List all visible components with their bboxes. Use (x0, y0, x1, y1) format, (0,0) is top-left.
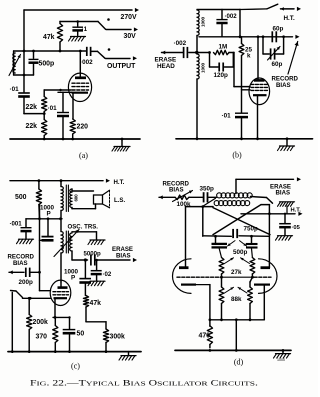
wire grid rail (a) (23, 51, 25, 92)
resistor 1M (b) (196, 50, 234, 54)
capacitor .01 (b) (235, 113, 248, 139)
svg-text:50: 50 (77, 331, 85, 338)
switch S1a HT selector (98, 18, 110, 29)
arrow onto right 500p (240, 241, 247, 246)
svg-text:470: 470 (199, 332, 211, 339)
terminal record bias (d) (159, 195, 175, 199)
label 300k (110, 334, 125, 341)
resistor 22k upper (a) (42, 90, 47, 115)
label 270V (121, 14, 137, 21)
svg-text:30V: 30V (124, 33, 137, 40)
svg-text:BIAS: BIAS (276, 82, 291, 89)
wire earth rail (b) (176, 137, 313, 140)
svg-text:1000: 1000 (201, 63, 207, 73)
wire grid2 lead (b) (242, 89, 251, 91)
arrow 88k right (238, 287, 247, 293)
label 47k (43, 34, 55, 41)
valve V1 (a) (68, 51, 91, 119)
caption Fig 22 (30, 379, 258, 388)
resistor 25k (b) (239, 37, 244, 113)
transformer primary (c) (61, 181, 63, 232)
label (a) (79, 151, 88, 160)
svg-text:·02: ·02 (103, 271, 112, 278)
label 47k (c) (90, 300, 102, 307)
valve V2 (b) (249, 37, 270, 139)
resistor 22k lower (a) (42, 114, 47, 139)
svg-text:500p: 500p (233, 249, 248, 256)
svg-text:220: 220 (77, 124, 89, 131)
svg-text:60p: 60p (272, 61, 283, 68)
svg-text:200k: 200k (33, 319, 48, 326)
wire left HT rail (a) (23, 10, 25, 51)
label OSC. TRS. (68, 224, 99, 231)
resistor 500 (c) (36, 181, 41, 219)
valve V5 right (d) (254, 259, 277, 294)
capacitor .002 erase (b) (184, 47, 196, 58)
arrow 27k right (241, 258, 250, 264)
label ERASE HEAD (155, 57, 177, 71)
svg-text:47k: 47k (90, 300, 102, 307)
svg-text:200p: 200p (19, 279, 34, 286)
svg-text:FIG. 22.—TYPICAL BIAS OSCILLAT: FIG. 22.—TYPICAL BIAS OSCILLATOR CIRCUIT… (30, 379, 258, 388)
svg-text:P: P (71, 275, 75, 282)
label H.T. (c) (114, 179, 125, 186)
label 500 (15, 194, 27, 201)
ground below .1 cap (69, 37, 86, 42)
label L.S. (114, 197, 125, 204)
label H.T. (d) (291, 208, 302, 214)
wire left anode junction to coil (d) (203, 198, 216, 206)
ground below .001 (17, 239, 34, 244)
label .002 output (80, 59, 93, 66)
resistor 100k variable (d) (173, 191, 193, 202)
svg-text:22k: 22k (26, 123, 38, 130)
svg-text:BIAS: BIAS (116, 253, 131, 260)
wire cathode bus (d) (209, 318, 265, 321)
wire grid line right (d) (254, 276, 271, 278)
label 25k (245, 47, 253, 60)
label 88k (231, 296, 242, 303)
wire left cathode lead (d) (209, 285, 211, 320)
label 22k lower (26, 123, 38, 130)
svg-text:47k: 47k (43, 34, 55, 41)
svg-text:500: 500 (15, 194, 27, 201)
svg-text:·05: ·05 (292, 225, 301, 231)
wire erase bias tap (d) (236, 177, 301, 193)
label 100k (177, 201, 192, 208)
wire grid lead (c) (40, 272, 51, 290)
label OUTPUT (107, 63, 136, 70)
label 5000p (84, 251, 102, 258)
label 200p (19, 279, 34, 286)
wire left anode lead (d) (185, 207, 187, 268)
svg-text:350p: 350p (200, 186, 215, 193)
transformer secondary (c) (70, 189, 72, 209)
label 1000p (40, 205, 55, 218)
ground (a) (112, 139, 130, 151)
label H.T. (b) (284, 15, 295, 22)
wire tank top / output bus (a) (14, 50, 87, 53)
inductor L3 top row (d) (217, 193, 253, 198)
valve V4 left (d) (172, 259, 209, 294)
switch record/play (c) (11, 291, 51, 300)
resistor 200k (c) (27, 297, 32, 352)
wire HT top rail (a) (24, 8, 139, 12)
svg-text:HEAD: HEAD (157, 63, 175, 70)
label .002 anode (225, 13, 238, 20)
oscillator winding right (c) (70, 233, 72, 260)
label 120p (214, 72, 229, 79)
label 50 (77, 331, 85, 338)
svg-text:H.T.: H.T. (284, 15, 295, 22)
wire to speaker bottom (c) (72, 204, 96, 209)
capacitor 50 (c) (63, 317, 76, 351)
switch S2a output (98, 48, 111, 58)
svg-text:k: k (247, 53, 251, 60)
label coil winding lower (b) (201, 63, 207, 73)
arrow onto left 500p (228, 241, 236, 246)
label secondary 600 (74, 194, 79, 202)
svg-text:300k: 300k (110, 334, 125, 341)
wire earth rail (d) (175, 349, 291, 352)
wire rail x40 (c) (39, 205, 41, 273)
wire centre tap to earth (d) (235, 320, 237, 351)
wire earth rail (c) (8, 350, 141, 353)
label coil winding upper (b) (201, 17, 207, 27)
label 30V (124, 33, 137, 40)
svg-text:1M: 1M (219, 44, 228, 51)
resistor 88k right (d) (248, 277, 253, 320)
svg-text:·002: ·002 (174, 40, 187, 47)
wire coil top to switch (b) (197, 9, 240, 11)
svg-text:·01: ·01 (10, 86, 20, 93)
ground (c) (119, 352, 136, 361)
label 500p (39, 61, 55, 68)
capacitor 5000p (c) (91, 255, 95, 266)
label 60p upper (273, 26, 284, 33)
wire to speaker top (c) (72, 190, 94, 192)
svg-text:27k: 27k (231, 269, 242, 276)
svg-text:OSC. TRS.: OSC. TRS. (68, 224, 99, 231)
wire erase bus (c) (72, 258, 137, 262)
svg-text:(d): (d) (234, 357, 244, 366)
resistor 300k (c) (103, 329, 108, 352)
wire cathode bus (c) (53, 316, 71, 319)
wire grid line left (d) (177, 276, 220, 278)
label 220 (77, 124, 89, 131)
svg-text:5000p: 5000p (84, 251, 102, 258)
svg-text:·01: ·01 (222, 113, 232, 120)
resistor 47k (c) (83, 296, 88, 322)
wire 47k to 300k (c) (86, 322, 106, 329)
loudspeaker LS (c) (94, 190, 110, 207)
wire grid return (a) (24, 113, 44, 115)
capacitor 60p fixed (b) (272, 31, 276, 42)
svg-text:·002: ·002 (225, 13, 238, 20)
label 750p (244, 226, 259, 233)
resistor 27k right (d) (250, 258, 255, 278)
svg-text:L.S.: L.S. (114, 197, 125, 204)
svg-text:·001: ·001 (10, 221, 23, 228)
label 22k upper (26, 104, 38, 111)
label 1000p erase (64, 269, 79, 282)
label .001 (10, 221, 23, 228)
capacitor .1 (a) (72, 20, 83, 35)
capacitor .01 cathode (a) (57, 113, 69, 140)
capacitor 500p left (d) (212, 236, 228, 258)
svg-text:500p: 500p (39, 61, 55, 68)
inductor L3 bottom row (d) (214, 201, 250, 206)
capacitor 60p trimmer (b) (263, 37, 284, 60)
svg-text:BIAS: BIAS (169, 187, 184, 194)
ground below .02 (88, 281, 105, 286)
label 27k (231, 269, 242, 276)
svg-text:120p: 120p (214, 72, 229, 79)
svg-text:(b): (b) (232, 151, 242, 160)
resistor 370 (c) (53, 317, 58, 351)
capacitor .001 (c) (21, 219, 32, 239)
capacitor 120p (b) (210, 53, 234, 72)
svg-text:BIAS: BIAS (13, 260, 28, 267)
label .002 erase (174, 40, 187, 47)
capacitor .002 output (a) (87, 47, 98, 56)
wire grid coupling bus (d) (203, 207, 270, 238)
svg-text:·002: ·002 (80, 59, 93, 66)
wire earth rail (a) (10, 138, 140, 141)
label (c) (71, 362, 80, 371)
switch S1b HT (240, 4, 301, 11)
wire grid lead (b) (234, 53, 250, 87)
label .01 grid (10, 86, 20, 93)
label .05 (292, 225, 301, 231)
label 200k (33, 319, 48, 326)
wire right anode lead (d) (268, 205, 270, 268)
svg-text:370: 370 (36, 334, 48, 341)
label 500p (d) (233, 249, 248, 256)
capacitor .01 grid (a) (18, 93, 30, 114)
wire grid line mid (d) (220, 276, 254, 279)
label RECORD BIAS (d) (163, 181, 190, 194)
capacitor 500p right (d) (246, 236, 258, 258)
svg-text:1000: 1000 (277, 358, 285, 362)
capacitor 1000p erase (c) (79, 260, 91, 296)
label .1 (82, 26, 88, 33)
valve V3 (c) (50, 280, 71, 317)
terminal record bias (c) (9, 270, 24, 274)
wire right cathode lead (d) (263, 285, 265, 320)
resistor 470 (d) (207, 320, 212, 348)
hatch coil end (d) (278, 202, 295, 214)
ground (b) (278, 139, 295, 151)
arrow tuning (c) (54, 230, 79, 257)
wire 30V (a) (106, 27, 138, 31)
capacitor 500p (a) (29, 51, 39, 75)
wire tank bottom (a) (14, 74, 34, 77)
wire cross coupling A (d) (213, 208, 270, 235)
wire HT (d) (241, 212, 303, 216)
svg-text:H.T.: H.T. (291, 208, 302, 214)
capacitor 200p (c) (26, 268, 41, 277)
wire left anode link (d) (186, 205, 214, 208)
label (d) (234, 357, 244, 366)
resistor 27k left (d) (219, 258, 224, 278)
label 370 (36, 334, 48, 341)
svg-text:H.T.: H.T. (114, 179, 125, 186)
svg-text:BIAS: BIAS (276, 190, 291, 197)
wire HT (c) (10, 179, 110, 183)
svg-text:88k: 88k (231, 296, 242, 303)
svg-text:(a): (a) (79, 151, 88, 160)
svg-text:OUTPUT: OUTPUT (107, 63, 136, 70)
wire anode bus (b) (199, 10, 300, 39)
label ERASE BIAS (d) (270, 184, 291, 197)
resistor 47k (a) (57, 22, 62, 52)
label ERASE BIAS (c) (112, 246, 133, 260)
variable inductor L1 (a) (9, 51, 21, 76)
svg-text:·1: ·1 (82, 26, 88, 33)
label 350p (200, 186, 215, 193)
label RECORD BIAS (c) (8, 254, 35, 268)
wire coil to HT corner (d) (251, 197, 273, 204)
label 470 (199, 332, 211, 339)
svg-text:22k: 22k (26, 104, 38, 111)
svg-text:P: P (47, 211, 51, 218)
wire grid to valve (a) (44, 89, 71, 91)
oscillator coil L2 (b) (195, 10, 199, 139)
transformer core (c) (66, 185, 68, 253)
wire output (a) (106, 56, 138, 60)
svg-text:270V: 270V (121, 14, 137, 21)
terminal erase head (b) (162, 51, 184, 55)
arrow 27k left (225, 258, 234, 264)
wire grid bus (c) (26, 217, 62, 220)
svg-text:(c): (c) (71, 362, 80, 371)
label .02 (103, 271, 112, 278)
wire switch down lead (c) (11, 293, 13, 352)
resistor 220 (a) (70, 119, 75, 139)
svg-text:1000: 1000 (201, 17, 207, 27)
ground below .05 (276, 236, 293, 241)
label (b) (232, 151, 242, 160)
wire switch feed (a) (60, 21, 98, 23)
label 1M (219, 44, 228, 51)
capacitor .05 (d) (279, 214, 291, 236)
svg-text:·01: ·01 (48, 105, 58, 112)
capacitor .02 (c) (91, 259, 102, 281)
ground (d) (274, 350, 291, 362)
label .01 (b) (222, 113, 232, 120)
svg-text:750p: 750p (244, 226, 259, 233)
label .01 cathode (48, 105, 58, 112)
ground mid (c) (72, 232, 105, 245)
arrow 88k left (225, 287, 234, 293)
capacitor .002 anode (b) (216, 10, 227, 37)
capacitor 350p (d) (189, 192, 217, 202)
label 60p lower (272, 61, 283, 68)
capacitor 750p (d) (233, 229, 237, 238)
wire cathode branch (a) (58, 92, 72, 111)
wire cross coupling B (d) (213, 205, 269, 235)
resistor 88k left (d) (219, 277, 224, 320)
capacitor 1000p (c) (40, 219, 54, 241)
arrow record bias (b) (288, 42, 299, 75)
svg-text:60p: 60p (273, 26, 284, 33)
label RECORD BIAS (b) (272, 76, 299, 90)
oscillator winding left (c) (61, 232, 63, 283)
svg-text:600: 600 (74, 194, 79, 202)
